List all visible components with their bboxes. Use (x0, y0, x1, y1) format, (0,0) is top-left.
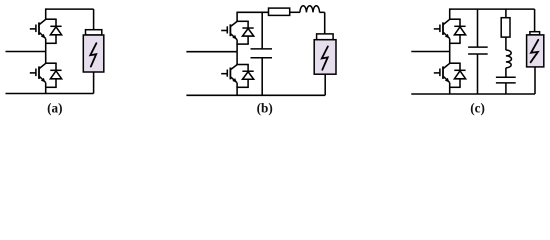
wire: (c) bottom rail / DC- bus (411, 93, 535, 95)
capacitor C2 (DC link) (468, 47, 488, 54)
wire: bottom junction of Q6/D6 (449, 86, 461, 88)
transistor Q6 (IGBT) (434, 63, 450, 82)
wire: bottom junction of Q4/D4 (236, 86, 248, 88)
wire: (c) top rail / DC+ bus (450, 8, 535, 10)
transistor Q3 (IGBT) (221, 21, 237, 39)
wire: (b) top rail to resistor (237, 11, 268, 13)
wire: top junction of Q2/D2 (45, 62, 57, 64)
diode D1 (antiparallel) (50, 19, 61, 43)
wire: (a) Q2 emitter to bottom rail (45, 83, 47, 94)
transistor Q5 (IGBT) (434, 19, 450, 38)
wire: (c) Q6 emitter to bottom rail (449, 83, 451, 94)
wire: (c) damper branch bottom lead (505, 83, 507, 94)
wire: bottom junction of Q5/D5 (449, 42, 461, 44)
wire: (c) damper branch top lead (505, 9, 507, 18)
transistor Q4 (IGBT) (221, 65, 237, 83)
transistor Q1 (IGBT) (30, 19, 46, 38)
wire: (a) midpoint to Q2 collector riser (45, 52, 47, 64)
diode D4 (antiparallel) (242, 65, 253, 88)
wire: (a) bottom rail / DC- bus (6, 93, 94, 95)
battery BT1 (83, 30, 104, 72)
wire: (c) capacitor branch upper lead (477, 9, 479, 47)
diode D6 (antiparallel) (454, 63, 465, 87)
wire: (c) capacitor branch lower lead (477, 54, 479, 94)
battery BT3 (527, 32, 544, 67)
wire: (a) battery negative lead (93, 72, 95, 94)
diode D2 (antiparallel) (50, 63, 61, 87)
wire: (c) battery positive lead (534, 9, 536, 32)
capacitor C1 (DC link) (251, 49, 273, 58)
wire: bottom junction of Q3/D3 (236, 43, 248, 45)
svg-text:(a): (a) (47, 101, 62, 116)
wire: (a) battery positive lead (93, 9, 95, 30)
svg-text:(c): (c) (470, 101, 485, 116)
wire: (c) midpoint output stub (411, 51, 449, 53)
wire: top junction of Q1/D1 (45, 18, 57, 20)
wire: (c) midpoint to Q6 collector riser (449, 52, 451, 64)
wire: (b) battery negative lead (324, 74, 326, 95)
wire: (b) midpoint output stub (186, 51, 237, 53)
wire: (b) midpoint to Q4 collector riser (236, 52, 238, 65)
wire: bottom junction of Q1/D1 (45, 42, 57, 44)
wire: (b) upper collector riser (236, 12, 238, 22)
wire: (c) resistor to inductor lead (505, 37, 507, 50)
inductor L1 (300, 6, 320, 13)
wire: top junction of Q5/D5 (449, 18, 461, 20)
wire: (b) capacitor branch lower lead (261, 58, 263, 96)
wire: (b) Q3 emitter to midpoint (236, 40, 238, 52)
wire: (b) bottom rail / DC- bus (186, 94, 325, 96)
svg-text:(b): (b) (257, 101, 273, 116)
wire: (b) Q4 emitter to bottom rail (236, 83, 238, 95)
wire: (b) capacitor branch upper lead (261, 12, 263, 49)
transistor Q2 (IGBT) (30, 63, 46, 82)
resistor R1 (269, 8, 290, 15)
wire: (c) upper collector riser (449, 8, 451, 19)
wire: top junction of Q6/D6 (449, 62, 461, 64)
wire: (a) upper collector riser (45, 8, 47, 19)
inductor L2 (506, 50, 512, 68)
wire: (c) Q5 emitter to midpoint (449, 39, 451, 52)
wire: bottom junction of Q2/D2 (45, 86, 57, 88)
wire: top junction of Q3/D3 (236, 20, 248, 22)
wire: (b) inductor to battery corner (320, 11, 325, 13)
diode D5 (antiparallel) (454, 19, 465, 43)
wire: (a) Q1 emitter to midpoint (45, 39, 47, 52)
wire: (c) battery negative lead (534, 67, 536, 94)
wire: top junction of Q4/D4 (236, 64, 248, 66)
wire: (a) midpoint output stub (6, 51, 46, 53)
capacitor C3 (damper) (496, 77, 516, 83)
battery BT2 (314, 34, 336, 74)
wire: (b) battery positive lead (324, 12, 326, 34)
wire: (b) resistor to inductor (290, 11, 301, 13)
wire: (c) inductor to capacitor lead (505, 68, 507, 77)
diode D3 (antiparallel) (242, 21, 253, 44)
wire: (a) top rail / DC+ bus (46, 8, 94, 10)
resistor R2 (501, 18, 510, 37)
